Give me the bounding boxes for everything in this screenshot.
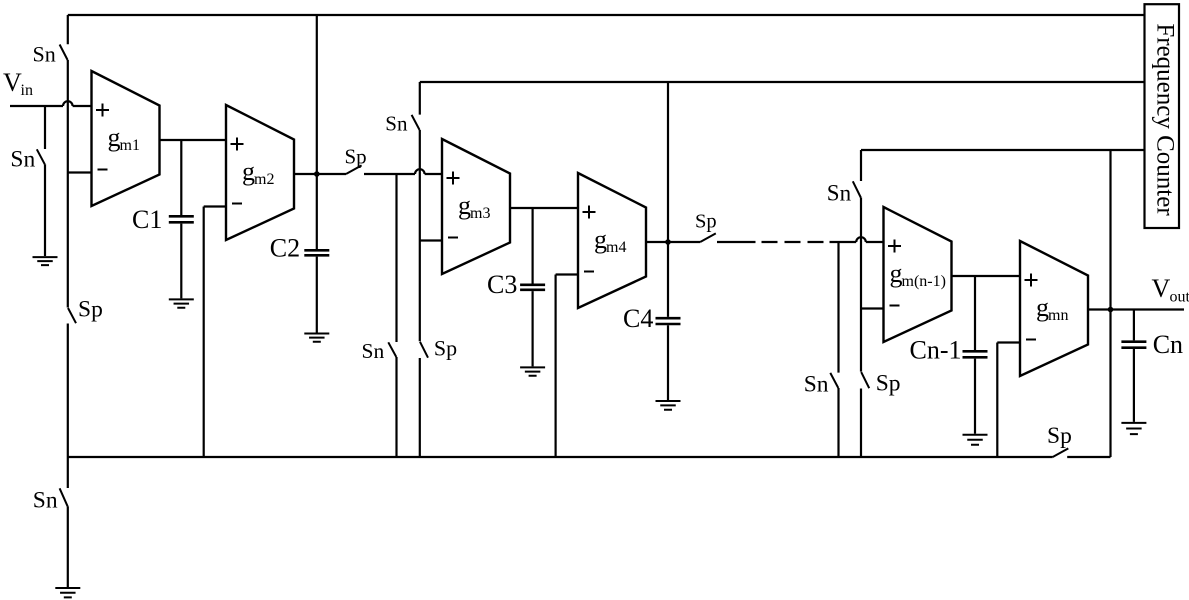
svg-text:Sn: Sn bbox=[33, 41, 56, 66]
svg-text:Sp: Sp bbox=[695, 211, 717, 233]
svg-text:m4: m4 bbox=[606, 239, 626, 256]
svg-text:Sp: Sp bbox=[345, 144, 367, 168]
svg-text:Sp: Sp bbox=[434, 335, 457, 360]
svg-text:C2: C2 bbox=[270, 234, 300, 263]
svg-text:V: V bbox=[3, 68, 22, 97]
svg-text:Sp: Sp bbox=[1047, 423, 1072, 449]
svg-text:Frequency Counter: Frequency Counter bbox=[1152, 23, 1179, 216]
svg-text:Cn-1: Cn-1 bbox=[910, 336, 962, 365]
svg-text:V: V bbox=[1152, 274, 1171, 303]
svg-text:m2: m2 bbox=[254, 171, 274, 188]
svg-text:Sn: Sn bbox=[804, 372, 829, 398]
svg-text:mn: mn bbox=[1048, 307, 1068, 324]
svg-text:Sn: Sn bbox=[362, 339, 385, 363]
svg-text:C3: C3 bbox=[487, 270, 517, 299]
svg-text:Sn: Sn bbox=[827, 180, 852, 205]
svg-text:m3: m3 bbox=[470, 205, 490, 222]
svg-text:out: out bbox=[1170, 289, 1189, 306]
svg-text:C4: C4 bbox=[623, 304, 653, 333]
svg-text:in: in bbox=[21, 82, 33, 99]
svg-text:m1: m1 bbox=[120, 137, 140, 154]
svg-text:m(n-1): m(n-1) bbox=[902, 273, 946, 290]
svg-text:Cn: Cn bbox=[1153, 330, 1183, 359]
svg-text:Sn: Sn bbox=[33, 487, 58, 513]
svg-text:Sn: Sn bbox=[385, 111, 408, 135]
svg-text:Sp: Sp bbox=[876, 371, 901, 397]
svg-text:Sn: Sn bbox=[10, 146, 35, 172]
svg-text:Sp: Sp bbox=[78, 296, 103, 322]
svg-text:C1: C1 bbox=[132, 205, 162, 234]
